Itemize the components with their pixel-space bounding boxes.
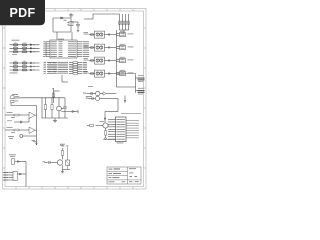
svg-text:PDF: PDF <box>10 6 36 20</box>
